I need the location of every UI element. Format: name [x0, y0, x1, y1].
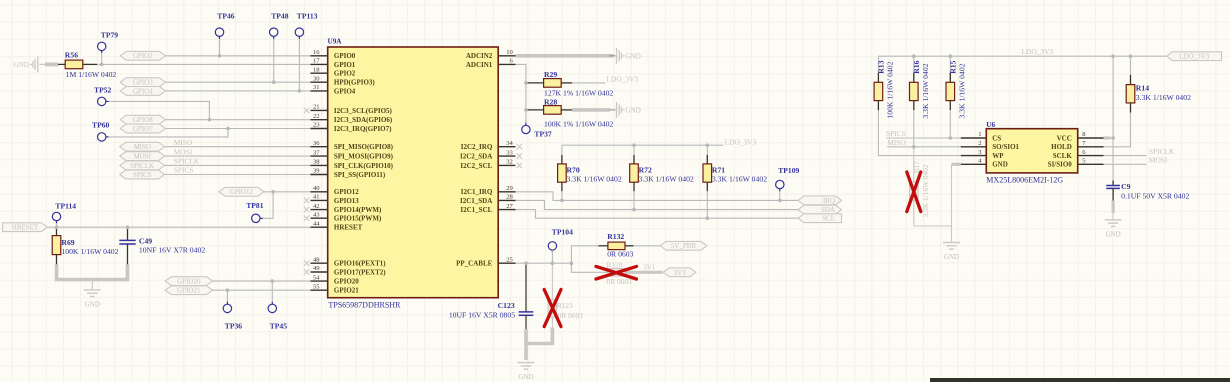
svg-text:TP60: TP60	[92, 120, 110, 129]
junction R15 on SPICS wire	[949, 136, 953, 140]
svg-text:WP: WP	[992, 152, 1004, 160]
port LDO_3V3	[1167, 52, 1222, 61]
wire GPIO3 port to U9A pin 30	[166, 81, 311, 83]
svg-text:R15: R15	[949, 60, 958, 73]
wire SPICS port to U9A pin 39	[165, 174, 311, 176]
port 5V_PBR	[660, 241, 707, 250]
svg-text:33: 33	[506, 149, 513, 156]
resistor R56	[58, 63, 65, 65]
capacitor C9	[1112, 181, 1114, 186]
ground GND on R28 net	[609, 109, 616, 111]
no-connect marks on U9A pins 21,41,42,43,48,49	[304, 108, 310, 114]
svg-text:SI/SIO0: SI/SIO0	[1048, 161, 1073, 169]
svg-text:37: 37	[313, 149, 320, 156]
svg-text:R13: R13	[877, 60, 886, 73]
svg-text:3.3K 1/16W 0402: 3.3K 1/16W 0402	[921, 63, 930, 118]
svg-text:R56: R56	[65, 50, 78, 59]
junction TP104/R123 branch	[551, 261, 555, 265]
svg-text:17: 17	[313, 58, 320, 65]
svg-text:43: 43	[313, 211, 320, 218]
svg-text:I2C2_IRQ: I2C2_IRQ	[461, 143, 493, 151]
svg-text:GPIO14(PWM): GPIO14(PWM)	[334, 206, 382, 214]
test point TP48	[270, 28, 278, 36]
wire GPIO7 port to U9A pin 23	[166, 128, 311, 130]
ground GND below C9	[1105, 219, 1122, 221]
port GPIO21	[165, 286, 212, 295]
port SCL	[798, 214, 842, 223]
svg-text:GND: GND	[85, 301, 100, 309]
wire TP81 branch	[260, 192, 273, 219]
svg-text:TP37: TP37	[534, 130, 552, 139]
test point TP37	[522, 125, 530, 133]
wire to R128 (greyed)	[571, 263, 608, 272]
svg-text:GPIO13: GPIO13	[334, 197, 359, 205]
test point TP60	[98, 133, 106, 141]
red cross R128 not fitted	[596, 266, 637, 279]
svg-text:C9: C9	[1121, 182, 1131, 191]
svg-text:MX25L8006EM2I-12G: MX25L8006EM2I-12G	[986, 176, 1063, 185]
svg-text:SPI_CLK(GPIO10): SPI_CLK(GPIO10)	[334, 162, 394, 170]
svg-text:GPIO20: GPIO20	[177, 278, 201, 286]
junction R72 top	[632, 143, 636, 147]
svg-text:GPIO7: GPIO7	[133, 125, 153, 133]
junction R132/R128 branch	[570, 261, 574, 265]
junction R28 branch	[524, 108, 528, 112]
port GPIO3	[120, 78, 165, 87]
resistor R29	[526, 82, 544, 84]
resistor R128 greyed not fitted	[608, 269, 625, 277]
wire C123/R123 to ground (thick greyed)	[526, 328, 552, 344]
svg-text:CS: CS	[992, 134, 1001, 142]
junction TP60 wire on GPIO7 wire	[226, 127, 230, 131]
test point TP79	[98, 42, 106, 50]
svg-text:ADCIN1: ADCIN1	[466, 61, 493, 69]
svg-text:31: 31	[313, 84, 320, 91]
svg-text:GPIO2: GPIO2	[133, 52, 153, 60]
svg-text:MISO: MISO	[133, 143, 151, 151]
svg-text:GPIO17(PEXT2): GPIO17(PEXT2)	[334, 268, 386, 276]
svg-text:30: 30	[313, 75, 320, 82]
svg-text:27: 27	[506, 203, 513, 210]
resistor R132	[598, 245, 608, 247]
svg-text:SPICS: SPICS	[133, 171, 152, 179]
svg-text:TP48: TP48	[271, 11, 289, 20]
svg-text:TP52: TP52	[94, 85, 112, 94]
svg-text:44: 44	[313, 220, 320, 227]
port GPIO12	[219, 187, 264, 196]
svg-text:34: 34	[506, 140, 513, 147]
svg-text:R70: R70	[567, 166, 580, 175]
svg-text:MISO: MISO	[174, 138, 193, 147]
svg-text:3.3K 1/16W 0402: 3.3K 1/16W 0402	[567, 174, 622, 183]
svg-text:1: 1	[978, 131, 981, 138]
U9A right pins	[498, 56, 515, 263]
wire TP52 to GPIO8 net	[109, 101, 210, 119]
svg-text:GPIO8: GPIO8	[133, 116, 153, 124]
svg-text:40: 40	[313, 185, 320, 192]
svg-text:16: 16	[313, 49, 320, 56]
svg-text:U6: U6	[986, 121, 995, 129]
junction C123 branch	[524, 261, 528, 265]
svg-text:GND: GND	[13, 61, 29, 69]
svg-text:VCC: VCC	[1057, 134, 1072, 142]
junction R15 top	[949, 54, 953, 58]
wire R128 to 3V3 port (thick greyed)	[625, 271, 663, 274]
wire I2C1_SCL pin 27 to SCL port	[516, 210, 799, 219]
resistor R13	[877, 56, 879, 72]
svg-text:0R 0603: 0R 0603	[558, 311, 584, 320]
junction R72 bottom on SDA wire	[632, 208, 636, 212]
svg-text:1M 1/16W 0402: 1M 1/16W 0402	[66, 70, 117, 79]
wire U6 GND pin 4 down to ground	[951, 164, 953, 241]
op-amp U9A body	[328, 47, 499, 298]
test point TP113	[295, 28, 303, 36]
junction HRESET wire R69	[55, 225, 59, 229]
resistor R28	[526, 109, 544, 111]
junction VCC on C9 column	[1111, 136, 1115, 140]
svg-text:R16: R16	[912, 60, 921, 73]
wire MOSI port to U9A pin 37	[165, 155, 311, 157]
wire I2C1_IRQ pin 29 to IRQ port	[516, 192, 799, 201]
test point TP52	[98, 97, 106, 105]
wire MISO port to U9A pin 36	[165, 146, 311, 148]
svg-text:GPIO4: GPIO4	[133, 87, 153, 95]
svg-text:R71: R71	[712, 166, 725, 175]
junction HRESET wire C49	[126, 225, 130, 229]
svg-text:SPI_MISO(GPIO8): SPI_MISO(GPIO8)	[334, 143, 394, 151]
svg-text:HPD(GPIO3): HPD(GPIO3)	[334, 79, 375, 87]
svg-text:SCL: SCL	[822, 215, 835, 223]
wire ADCIN1 pin 6 branch	[516, 64, 526, 125]
svg-text:22: 22	[313, 113, 320, 120]
wire R28 to ground (thick greyed)	[572, 108, 610, 112]
wire R69/C49 bottoms to ground (thick greyed)	[57, 264, 128, 279]
svg-text:GPIO12: GPIO12	[230, 188, 254, 196]
junction TP45 on GPIO20 wire	[271, 279, 275, 283]
svg-text:2: 2	[978, 140, 981, 147]
svg-text:0R 0603: 0R 0603	[607, 250, 633, 259]
svg-text:100K 1/16W 0402: 100K 1/16W 0402	[61, 247, 118, 256]
wire GPIO8 port to U9A pin 22	[166, 119, 311, 121]
svg-text:SPICS: SPICS	[174, 166, 194, 175]
svg-text:23: 23	[313, 122, 320, 129]
resistor R71	[706, 145, 708, 164]
resistor R69	[56, 227, 58, 235]
port SDA	[798, 205, 842, 214]
svg-text:TP114: TP114	[55, 202, 76, 211]
svg-text:GPIO4: GPIO4	[334, 87, 356, 95]
svg-text:TP79: TP79	[101, 31, 119, 40]
svg-text:R29: R29	[544, 70, 557, 79]
capacitor C49	[127, 227, 129, 240]
svg-text:SPICLK: SPICLK	[1149, 147, 1175, 156]
junction R29 branch	[524, 81, 528, 85]
svg-text:39: 39	[313, 168, 320, 175]
svg-text:HRESET: HRESET	[334, 224, 363, 232]
svg-text:LDO_3V3: LDO_3V3	[607, 74, 639, 83]
wire U6 SCLK pin 6	[1104, 155, 1147, 157]
ground GND on ADCIN2 net	[609, 55, 616, 57]
port SPICS	[120, 170, 165, 179]
svg-text:54: 54	[313, 274, 320, 281]
junction R16/R17 on MISO wire	[912, 145, 916, 149]
svg-text:3V3: 3V3	[674, 269, 687, 277]
svg-text:I2C3_IRQ(GPIO7): I2C3_IRQ(GPIO7)	[334, 125, 392, 133]
svg-text:IRQ: IRQ	[823, 197, 835, 205]
test point TP109	[776, 180, 784, 188]
port GPIO7	[120, 124, 165, 133]
wire TP60 to GPIO7 net	[109, 129, 229, 137]
wire R132 to 5V_PBR port	[634, 245, 661, 247]
svg-text:SPICLK: SPICLK	[174, 157, 200, 166]
wire to R132	[571, 246, 598, 263]
resistor R123 greyed not fitted	[551, 263, 553, 299]
junction GPIO12 wire TP81 branch	[271, 190, 275, 194]
test point TP81	[252, 214, 260, 222]
svg-text:18: 18	[313, 66, 320, 73]
port GPIO4	[120, 87, 165, 96]
svg-text:TP113: TP113	[297, 11, 318, 20]
junction R71 top	[706, 143, 710, 147]
svg-text:I2C1_IRQ: I2C1_IRQ	[461, 188, 493, 196]
svg-text:R28: R28	[544, 97, 557, 106]
svg-text:SO/SIO1: SO/SIO1	[992, 143, 1019, 151]
wire R15 to SPICS wire	[949, 110, 951, 138]
svg-text:0R 0603: 0R 0603	[607, 277, 633, 286]
svg-text:36: 36	[313, 140, 320, 147]
svg-text:GPIO16(PEXT1): GPIO16(PEXT1)	[334, 260, 386, 268]
wire HRESET port to U9A pin 44	[47, 226, 310, 228]
svg-text:GPIO21: GPIO21	[334, 287, 359, 295]
port GPIO2	[120, 51, 165, 60]
wire R13 to U6 WP pin 3	[878, 110, 960, 155]
svg-text:GND: GND	[625, 106, 641, 114]
resistor R14	[1130, 56, 1132, 75]
junction R16 top	[912, 54, 916, 58]
svg-text:32: 32	[506, 159, 513, 166]
svg-text:GPIO0: GPIO0	[334, 52, 356, 60]
svg-text:HRESET: HRESET	[12, 224, 39, 232]
port IRQ	[798, 196, 842, 205]
svg-text:LDO_3V3: LDO_3V3	[1022, 47, 1054, 56]
svg-text:I2C2_SCL: I2C2_SCL	[460, 162, 492, 170]
svg-text:I2C2_SDA: I2C2_SDA	[460, 153, 492, 161]
svg-text:TPS65987DDHRSHR: TPS65987DDHRSHR	[328, 301, 401, 310]
wire I2C1_SDA pin 28 to SDA port	[516, 200, 799, 209]
svg-text:R72: R72	[639, 166, 652, 175]
sheet border bar bottom right	[930, 378, 1230, 382]
test point TP114	[52, 212, 60, 220]
junction C9 column on LDO rail	[1111, 54, 1115, 58]
capacitor C123	[525, 263, 527, 312]
port HRESET	[3, 223, 48, 232]
junction TP109 on IRQ wire	[778, 199, 782, 203]
svg-text:R14: R14	[1136, 83, 1149, 92]
svg-text:SPI_SS(GPIO11): SPI_SS(GPIO11)	[334, 171, 386, 179]
svg-text:41: 41	[313, 194, 320, 201]
no-connect marks on U9A pins 34,33,32	[517, 144, 523, 150]
svg-text:LDO_3V3: LDO_3V3	[1179, 53, 1209, 61]
svg-text:TP109: TP109	[778, 166, 799, 175]
red cross R123 not fitted	[544, 290, 561, 327]
svg-text:GPIO15(PWM): GPIO15(PWM)	[334, 215, 382, 223]
svg-text:0.1UF 50V X5R 0402: 0.1UF 50V X5R 0402	[1121, 192, 1189, 201]
resistor R16	[913, 56, 915, 82]
ground GND below U6	[943, 242, 960, 244]
svg-text:PP_CABLE: PP_CABLE	[456, 260, 493, 268]
svg-text:I2C3_SDA(GPIO6): I2C3_SDA(GPIO6)	[334, 116, 393, 124]
svg-text:49: 49	[313, 265, 320, 272]
svg-text:3V1: 3V1	[643, 263, 656, 271]
wire U6 VCC pin 8 stub (thick greyed)	[1104, 136, 1111, 139]
ground GND below R69/C49	[84, 289, 101, 291]
svg-text:ADCIN2: ADCIN2	[466, 52, 493, 60]
junction R14 top	[1129, 54, 1133, 58]
wire R29 to LDO_3V3	[572, 82, 606, 84]
svg-text:10: 10	[506, 49, 513, 56]
resistor R70	[561, 145, 563, 155]
svg-text:3.3K 1/16W 0402: 3.3K 1/16W 0402	[712, 174, 767, 183]
svg-text:SCLK: SCLK	[1053, 152, 1073, 160]
svg-text:HOLD: HOLD	[1051, 143, 1072, 151]
wire C9 column	[1112, 56, 1114, 180]
test point TP36	[223, 304, 231, 312]
svg-text:TP36: TP36	[225, 322, 243, 331]
junction R70 bottom on IRQ wire	[560, 199, 564, 203]
svg-text:GND: GND	[992, 161, 1008, 169]
svg-text:29: 29	[506, 185, 513, 192]
resistor R72	[633, 145, 635, 164]
wire R14 to U6 HOLD pin 7	[1104, 113, 1131, 147]
svg-text:28: 28	[506, 194, 513, 201]
wire SPICLK port to U9A pin 38	[165, 164, 311, 166]
svg-text:TP104: TP104	[552, 228, 573, 237]
test point TP104	[548, 242, 556, 250]
wire U6 GND pin 4 stub (thick greyed)	[952, 163, 961, 166]
svg-text:C49: C49	[139, 237, 152, 246]
wire ADCIN2 pin 10 to ground (thick greyed)	[516, 54, 615, 58]
wire GPIO21 port to U9A pin 55	[213, 289, 311, 291]
wire ground tap	[91, 281, 93, 290]
svg-text:38: 38	[313, 159, 320, 166]
red cross R17 not fitted	[907, 172, 921, 212]
svg-text:MOSI: MOSI	[174, 147, 193, 156]
wire SPICS to U6 pin 1 CS	[886, 137, 961, 139]
svg-text:100K 1% 1/16W 0402: 100K 1% 1/16W 0402	[544, 119, 613, 128]
svg-text:42: 42	[313, 203, 320, 210]
wire GND to R56 (thick greyed)	[39, 63, 45, 65]
svg-text:GND: GND	[944, 253, 959, 261]
svg-text:100K 1/16W 0402: 100K 1/16W 0402	[885, 61, 894, 118]
junction TP48 on GPIO3 wire	[272, 80, 276, 84]
wire GPIO4 port to U9A pin 31	[166, 90, 311, 92]
svg-text:I2C3_SCL(GPIO5): I2C3_SCL(GPIO5)	[334, 107, 393, 115]
svg-text:U9A: U9A	[328, 38, 343, 46]
wire LDO_3V3 rail	[562, 144, 723, 146]
svg-text:SDA: SDA	[821, 206, 835, 214]
junction R71 bottom on SCL wire	[706, 216, 710, 220]
port GPIO20	[165, 277, 212, 286]
wire LDO_3V3 right rail	[878, 55, 1167, 57]
junction TP36 on GPIO21 wire	[226, 288, 230, 292]
svg-text:10UF 16V X5R 0805: 10UF 16V X5R 0805	[449, 311, 515, 320]
port SPICLK	[120, 161, 165, 170]
port GPIO8	[120, 115, 165, 124]
svg-text:SPICS: SPICS	[886, 129, 906, 138]
memory U6 body	[986, 129, 1077, 173]
svg-text:10NF 16V X7R 0402: 10NF 16V X7R 0402	[139, 245, 205, 254]
wire GPIO12 port to U9A pin 40	[264, 191, 311, 193]
svg-text:GPIO20: GPIO20	[334, 278, 359, 286]
junction TP52 wire on GPIO8 wire	[208, 118, 212, 122]
port MOSI	[120, 152, 165, 161]
ground GND below C123	[518, 362, 535, 364]
junction TP79 on GPIO1 wire	[100, 63, 104, 67]
svg-text:TP46: TP46	[217, 11, 235, 20]
test point TP45	[268, 304, 276, 312]
svg-text:R123: R123	[557, 301, 573, 310]
svg-text:GPIO3: GPIO3	[133, 79, 153, 87]
junction TP113 on GPIO4 wire	[298, 89, 302, 93]
wire R56 to U9A pin 17 GPIO1	[97, 63, 310, 65]
port 3V3	[663, 268, 696, 277]
svg-text:3.3K 1/16W 0402: 3.3K 1/16W 0402	[957, 63, 966, 118]
svg-text:GPIO21: GPIO21	[177, 287, 201, 295]
junction TP46 on GPIO2 wire	[218, 54, 222, 58]
svg-text:48: 48	[313, 256, 320, 263]
wire GPIO20 port to U9A pin 54	[213, 280, 311, 282]
svg-text:R132: R132	[607, 232, 624, 241]
svg-text:MOSI: MOSI	[133, 153, 151, 161]
svg-text:C123: C123	[498, 301, 515, 310]
wire R17 bottom to ground	[914, 225, 952, 227]
wire PP_CABLE pin 25	[516, 262, 572, 264]
svg-text:MOSI: MOSI	[1149, 156, 1168, 165]
svg-text:GND: GND	[518, 373, 533, 381]
wire C9 to ground (thick greyed bit)	[1111, 201, 1114, 214]
svg-text:127K 1% 1/16W 0402: 127K 1% 1/16W 0402	[544, 88, 613, 97]
svg-text:55: 55	[313, 283, 320, 290]
svg-text:I2C1_SDA: I2C1_SDA	[460, 197, 492, 205]
test point TP46	[215, 28, 223, 36]
svg-text:3.3K 1/16W 0402: 3.3K 1/16W 0402	[639, 174, 694, 183]
ground GND left of R56	[37, 56, 39, 72]
svg-text:GPIO12: GPIO12	[334, 188, 359, 196]
svg-text:GPIO2: GPIO2	[334, 70, 356, 78]
svg-text:SPI_MOSI(GPIO9): SPI_MOSI(GPIO9)	[334, 153, 394, 161]
svg-text:GND: GND	[1106, 230, 1121, 238]
resistor R17 greyed not fitted	[913, 147, 915, 182]
wire GPIO2 port to U9A pin 16	[166, 55, 311, 57]
U9A left pins	[310, 56, 327, 290]
svg-text:25: 25	[506, 256, 513, 263]
svg-text:GPIO1: GPIO1	[334, 61, 356, 69]
svg-text:LDO_3V3: LDO_3V3	[725, 137, 757, 146]
svg-text:5V_PBR: 5V_PBR	[671, 242, 697, 250]
port MISO	[120, 142, 165, 151]
U6 pins	[961, 138, 1104, 164]
svg-text:TP45: TP45	[270, 322, 288, 331]
wire U6 SI/SIO0 pin 5	[1104, 163, 1147, 165]
wire R16 to MISO wire	[913, 110, 915, 147]
svg-text:TP81: TP81	[246, 201, 264, 210]
svg-text:R128: R128	[607, 261, 623, 270]
resistor R15	[949, 56, 951, 82]
svg-text:3.3K 1/16W 0402: 3.3K 1/16W 0402	[1136, 93, 1191, 102]
svg-text:GND: GND	[625, 52, 641, 60]
svg-text:I2C1_SCL: I2C1_SCL	[460, 206, 492, 214]
svg-text:MISO: MISO	[887, 138, 906, 147]
